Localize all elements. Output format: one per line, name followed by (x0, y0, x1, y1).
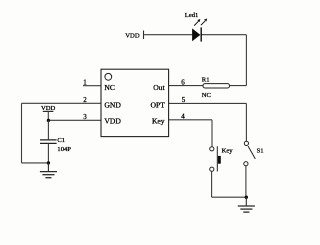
wire down to Key button (211, 120, 213, 147)
wire down to switch S1 (245, 103, 247, 141)
node VDD junction dot (47, 119, 50, 122)
pin number 3 (83, 113, 87, 121)
pin number 5 (182, 96, 186, 104)
wire Key button bottom to ground run (211, 171, 213, 197)
ground left (40, 163, 57, 178)
wire pin 6 Out to R1 (169, 85, 203, 87)
wire corner down to R1 net (245, 35, 247, 86)
svg-text:NC: NC (104, 83, 115, 92)
svg-text:S1: S1 (257, 147, 264, 154)
pin label NC (104, 83, 115, 92)
value 104P (57, 146, 71, 153)
svg-text:R1: R1 (202, 76, 210, 83)
svg-text:3: 3 (83, 113, 87, 121)
resistor R1 (202, 76, 230, 88)
wire R1 to vertical LED net (230, 85, 247, 87)
svg-text:Key: Key (222, 148, 234, 155)
wire bottom horizontal to ground node (212, 196, 247, 198)
label VDD top (125, 32, 140, 39)
svg-text:Led1: Led1 (185, 12, 199, 19)
svg-text:VDD: VDD (104, 116, 121, 125)
svg-text:Key: Key (152, 116, 165, 125)
pin number 1 (83, 79, 87, 87)
pin number 2 (83, 96, 87, 104)
wire left rail down (21, 103, 23, 163)
pin label GND (104, 100, 121, 109)
wire pin 3 VDD to VDD node (48, 119, 101, 121)
svg-text:1: 1 (83, 79, 87, 87)
wire left rail to C1 bottom node (22, 162, 49, 164)
svg-text:104P: 104P (57, 146, 71, 153)
wire pin 5 OPT to right corner (169, 102, 247, 104)
ground right (238, 197, 255, 212)
pin label OPT (151, 100, 166, 109)
svg-text:VDD: VDD (125, 32, 140, 39)
pin number 6 (181, 78, 185, 86)
pin number 4 (181, 113, 185, 121)
op IC U1 body (101, 69, 169, 136)
wire pin 4 Key to corner (169, 119, 212, 121)
wire VDD to LED anode (144, 34, 193, 36)
pin label Out (153, 83, 165, 92)
pin label Key (152, 116, 165, 125)
wire pin 2 GND to left rail (22, 102, 102, 104)
svg-text:6: 6 (181, 78, 185, 86)
svg-text:C1: C1 (57, 137, 65, 144)
svg-text:2: 2 (83, 96, 87, 104)
wire LED cathode to corner (201, 34, 246, 36)
capacitor C1 (40, 120, 65, 162)
pin label VDD (104, 116, 121, 125)
svg-text:4: 4 (181, 113, 185, 121)
label NC under R1 (202, 92, 212, 99)
push button Key (210, 146, 234, 171)
node C1 bottom junction dot (47, 161, 50, 164)
svg-text:GND: GND (104, 100, 121, 109)
svg-text:OPT: OPT (151, 100, 166, 109)
LED Led1 (185, 12, 207, 42)
svg-text:NC: NC (202, 92, 212, 99)
svg-text:Out: Out (153, 83, 165, 92)
svg-text:5: 5 (182, 96, 186, 104)
power VDD top rail tick (143, 31, 145, 40)
wire pin 1 stub (83, 85, 101, 87)
node ground junction dot (245, 196, 248, 199)
wire S1 bottom contact down to ground net (245, 166, 247, 197)
switch S1 (244, 141, 264, 166)
power VDD left (41, 105, 56, 120)
